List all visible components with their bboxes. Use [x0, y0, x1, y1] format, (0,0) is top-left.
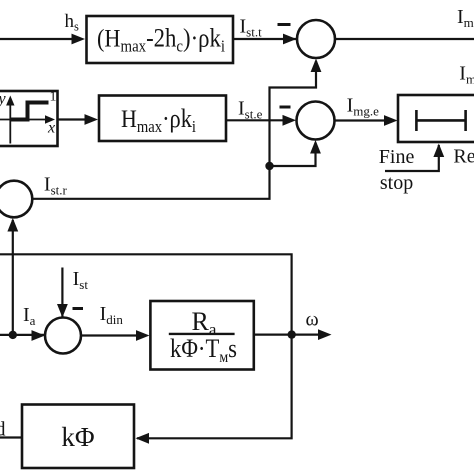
- arrowhead into box2: [85, 114, 99, 125]
- minus sign sum1: [278, 23, 291, 26]
- wire sum2 to limiter Imge: [334, 119, 385, 121]
- block B2 Hmax rho ki: [99, 96, 226, 142]
- svg-text:1: 1: [50, 90, 57, 105]
- svg-text:x: x: [47, 120, 55, 137]
- wire R box output omega: [254, 334, 319, 336]
- wire sum1 output Im: [335, 38, 474, 40]
- arrowhead down into sum4 top: [57, 304, 68, 318]
- arrowhead into sum4 left: [32, 330, 46, 341]
- arrowhead up into sum3 bottom: [7, 218, 18, 232]
- junction dot omega branch: [288, 330, 296, 338]
- arrowhead left into kPhi box: [136, 433, 150, 444]
- fraction bar R box: [169, 333, 235, 335]
- wire sum4 to R box Idin: [81, 334, 137, 336]
- wire Ia input: [0, 334, 46, 336]
- svg-text:Re: Re: [453, 146, 474, 168]
- block step function: [0, 91, 58, 146]
- step function curve: [10, 103, 49, 120]
- minus sign sum2: [280, 106, 291, 109]
- svg-text:(Hmax-2hc)·ρki: (Hmax-2hc)·ρki: [97, 24, 225, 56]
- wire hs input: [0, 38, 73, 40]
- summing junction sum4: [45, 318, 81, 354]
- svg-text:y: y: [0, 91, 7, 108]
- arrowhead into R box: [136, 330, 150, 341]
- arrowhead omega output: [318, 329, 332, 340]
- arrowhead up into sum1 bottom: [311, 59, 322, 73]
- junction dot Ia branch: [9, 331, 17, 339]
- svg-text:kΦ: kΦ: [61, 422, 94, 452]
- block R transfer function: [150, 301, 253, 370]
- block B1 (Hmax-2hc)rho ki: [87, 16, 234, 63]
- limiter symbol: [416, 110, 465, 131]
- axis arrowhead x: [45, 115, 55, 123]
- wire Ist down into sum4: [61, 268, 63, 320]
- wire fine stop: [385, 145, 439, 171]
- wire box2 to sum2: [226, 119, 285, 121]
- axis arrowhead y: [6, 96, 14, 106]
- svg-text:d: d: [0, 419, 6, 441]
- wire step box to box2: [58, 118, 88, 120]
- arrowhead into sum2: [283, 115, 297, 126]
- summing junction sum3: [0, 181, 32, 218]
- arrowhead into sum1: [283, 34, 297, 45]
- wire branch to sum2 bottom: [270, 143, 316, 167]
- wire kPhi output d: [0, 436, 22, 438]
- wire Istr from sum3 right: [33, 61, 317, 199]
- arrowhead into box1: [72, 34, 86, 45]
- block kPhi: [22, 405, 134, 469]
- wire box1 to sum1: [233, 38, 298, 40]
- svg-text:ω: ω: [306, 309, 319, 331]
- wire omega feedback long: [0, 254, 292, 438]
- svg-text:stop: stop: [380, 172, 413, 194]
- step box axes: [0, 99, 48, 144]
- junction dot branch Istr: [265, 162, 273, 170]
- minus sign sum4: [73, 307, 84, 310]
- arrowhead up into sum2 bottom: [310, 140, 321, 154]
- arrowhead into limiter: [384, 115, 398, 126]
- arrowhead up into limiter bottom: [433, 144, 444, 158]
- wire Ia branch up to sum3: [12, 220, 14, 335]
- block limiter: [398, 95, 474, 142]
- summing junction sum2: [297, 102, 335, 140]
- svg-text:Fine: Fine: [379, 146, 415, 168]
- summing junction sum1: [297, 20, 335, 58]
